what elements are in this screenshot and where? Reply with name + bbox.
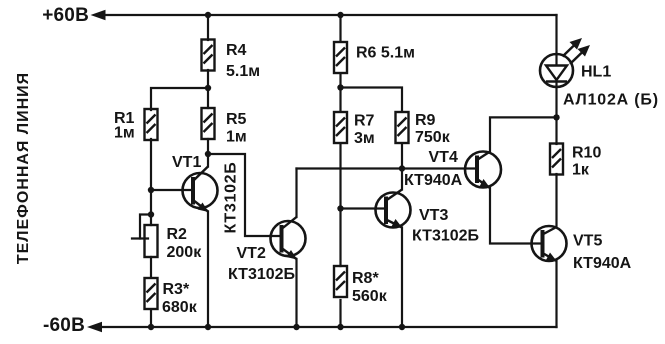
svg-text:R2: R2	[167, 226, 188, 243]
svg-text:VT5: VT5	[573, 233, 602, 250]
svg-text:R9: R9	[415, 112, 436, 129]
wire R6/R7 node to R9	[341, 88, 403, 112]
wire VT4 emitter to VT5 base	[490, 188, 543, 244]
svg-text:VT3: VT3	[419, 207, 448, 224]
svg-text:1м: 1м	[226, 129, 247, 146]
wire VT5 emitter to -60V rail right end	[555, 261, 557, 327]
resistor R8	[334, 266, 347, 297]
LED HL1 emission arrow 1	[563, 43, 578, 57]
wire R3 to -60V rail	[150, 310, 152, 327]
wire HL1 to R10	[555, 87, 557, 144]
resistor R10	[550, 144, 563, 175]
wire R7 to R8	[339, 144, 341, 266]
wire node to VT4 base	[402, 167, 477, 169]
wire R4 to R5	[207, 70, 209, 108]
svg-text:R4: R4	[226, 42, 247, 59]
wire VT3 base	[341, 207, 387, 209]
svg-text:VT1: VT1	[172, 154, 201, 171]
wire VT2 emitter to -60V rail	[295, 259, 297, 327]
svg-text:R10: R10	[572, 145, 601, 162]
resistor R5	[202, 108, 215, 139]
junction node VT1 base	[148, 187, 154, 193]
wire R9 to node (VT2/VT4/VT3)	[401, 144, 403, 190]
wire +60V to R6	[339, 15, 341, 42]
svg-text:5.1м: 5.1м	[226, 63, 260, 80]
wire R2 trimmer slot tick	[132, 237, 148, 239]
svg-text:R8*: R8*	[352, 270, 379, 287]
wire VT1 emitter to -60V rail	[207, 212, 209, 328]
junction node R3 rail	[148, 324, 154, 330]
junction node VT2c-R9-VT4b	[399, 165, 405, 171]
svg-text:КТ3102Б: КТ3102Б	[223, 162, 240, 234]
junction node R4-R5-R1	[205, 85, 211, 91]
svg-text:КТ3102Б: КТ3102Б	[412, 228, 479, 245]
svg-text:R5: R5	[226, 111, 247, 128]
svg-text:HL1: HL1	[581, 64, 611, 81]
junction node R4/R1 rail top	[205, 12, 211, 18]
svg-text:750к: 750к	[415, 129, 451, 146]
resistor R7	[334, 112, 347, 143]
wire R6 to R7	[339, 74, 341, 111]
net +60V rail	[99, 14, 557, 16]
resistor R4	[202, 40, 215, 71]
wire R2 to R3	[150, 257, 152, 277]
svg-text:VT2: VT2	[237, 245, 266, 262]
junction node R8 rail	[337, 324, 343, 330]
wire VT2 collector to node at R9 line	[297, 167, 403, 169]
wire R1 to R2	[150, 139, 152, 225]
svg-text:АЛ102А (Б): АЛ102А (Б)	[563, 92, 659, 109]
wire +60V to R4	[207, 15, 209, 40]
junction node VT3 base	[337, 205, 343, 211]
wire R10 to VT5 collector	[555, 174, 557, 227]
svg-text:R3*: R3*	[163, 281, 190, 298]
svg-text:560к: 560к	[352, 288, 388, 305]
wire VT2 collector up	[295, 169, 297, 218]
svg-text:КТ3102Б: КТ3102Б	[228, 266, 295, 283]
resistor R1	[145, 109, 158, 140]
svg-text:КТ940А: КТ940А	[404, 172, 463, 189]
transistor VT4	[465, 152, 501, 189]
junction node VT2e rail	[293, 324, 299, 330]
svg-text:КТ940А: КТ940А	[573, 255, 632, 272]
svg-text:VT4: VT4	[429, 149, 458, 166]
junction node R6-R7-R9	[337, 84, 343, 90]
junction node R6 rail top	[337, 12, 343, 18]
svg-text:-60В: -60В	[43, 315, 85, 336]
resistor R2 (trimmer, plain box)	[145, 225, 158, 257]
junction node VT1e rail	[205, 324, 211, 330]
junction node VT3e rail	[399, 324, 405, 330]
transistor VT2	[271, 217, 306, 260]
terminal arrow +60V	[91, 10, 106, 20]
svg-text:+60В: +60В	[42, 5, 89, 26]
svg-text:R7: R7	[354, 113, 375, 130]
wire R5 to VT1 collector	[207, 139, 209, 167]
wire VT3 emitter to -60V rail	[401, 228, 403, 328]
wire +60V to HL1	[555, 15, 557, 55]
transistor VT3	[376, 190, 411, 229]
wire VT4 collector to HL1/R10 node	[490, 117, 557, 151]
terminal arrow -60V	[87, 322, 102, 332]
LED HL1 emission arrow 2	[570, 50, 585, 65]
wire left branch top (R1 to R4/R5 node)	[151, 88, 208, 110]
junction node R2 tap	[148, 211, 154, 217]
transistor VT1	[183, 167, 218, 213]
transistor VT5	[532, 226, 567, 262]
resistor R9	[396, 112, 409, 143]
svg-text:1м: 1м	[114, 125, 135, 142]
svg-text:R6 5.1м: R6 5.1м	[356, 45, 415, 62]
svg-text:200к: 200к	[167, 244, 203, 261]
wire R2 trimmer tap arm	[140, 215, 151, 239]
resistor R3	[145, 278, 158, 309]
wire VT1 base	[151, 189, 193, 191]
LED HL1	[540, 38, 590, 87]
junction node VT1 collector	[205, 151, 211, 157]
resistor R6	[334, 42, 347, 73]
junction node HL1-R10-VT4c	[553, 114, 559, 120]
svg-text:3м: 3м	[354, 130, 375, 147]
wire R8 to -60V rail	[339, 300, 341, 327]
svg-text:680к: 680к	[162, 299, 198, 316]
wire VT1 collector to VT2 base	[208, 154, 282, 236]
svg-text:1к: 1к	[572, 162, 590, 179]
svg-text:ТЕЛЕФОННАЯ ЛИНИЯ: ТЕЛЕФОННАЯ ЛИНИЯ	[15, 72, 32, 264]
net -60V rail	[95, 326, 557, 328]
